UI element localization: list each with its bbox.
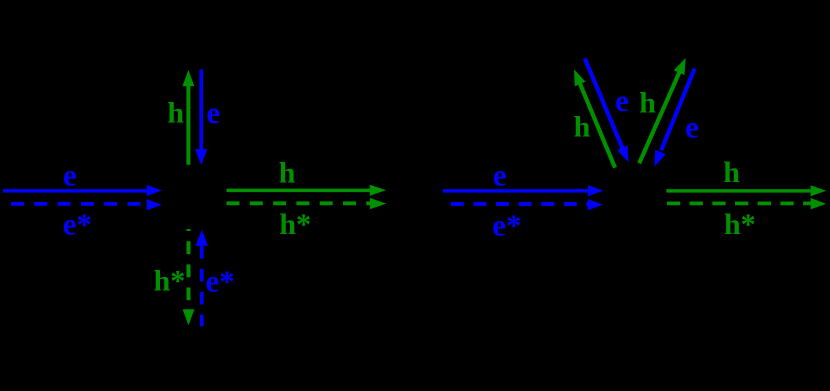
solid hole arrow h, up-left lead of right vertex (574, 69, 615, 167)
dashed time-reversed hole arrow h*, right lead of right vertex (667, 198, 826, 209)
svg-text:e*: e* (206, 264, 235, 299)
dashed time-reversed electron arrow e*, left lead of left vertex (11, 199, 162, 210)
svg-text:h: h (279, 156, 296, 189)
svg-text:e*: e* (492, 208, 521, 243)
svg-text:e: e (493, 158, 507, 193)
svg-text:h*: h* (154, 264, 186, 297)
solid hole arrow h pointing up, top lead of left vertex (183, 70, 195, 165)
solid hole arrow h, up-right lead of right vertex (639, 58, 685, 163)
solid electron arrow e incoming along up-left lead of right vertex (585, 58, 629, 162)
svg-text:e*: e* (63, 206, 92, 241)
svg-text:h: h (723, 156, 740, 189)
solid hole arrow h, right lead of left vertex (227, 185, 387, 196)
dashed time-reversed hole arrow h*, right lead of left vertex (227, 198, 387, 209)
svg-text:h*: h* (279, 208, 311, 241)
svg-text:h: h (167, 96, 184, 129)
solid electron arrow e, left lead of right vertex (443, 185, 603, 196)
svg-text:h: h (639, 86, 656, 119)
svg-text:h: h (574, 110, 591, 143)
dashed time-reversed electron arrow e*, left lead of right vertex (451, 199, 603, 210)
solid electron arrow e, left lead of left vertex (3, 185, 162, 196)
svg-text:e: e (206, 95, 220, 130)
svg-text:e: e (685, 110, 699, 145)
svg-text:h*: h* (724, 208, 756, 241)
svg-text:e: e (63, 158, 77, 193)
solid electron arrow e pointing down, top lead of left vertex (195, 69, 207, 165)
dashed hole arrow h* pointing down, bottom lead of left vertex (183, 229, 195, 325)
solid electron arrow e incoming along up-right lead of right vertex (654, 69, 694, 167)
dashed electron arrow e* pointing up, bottom lead of left vertex (196, 230, 208, 327)
solid hole arrow h, right lead of right vertex (666, 185, 826, 196)
svg-text:e: e (615, 83, 629, 118)
